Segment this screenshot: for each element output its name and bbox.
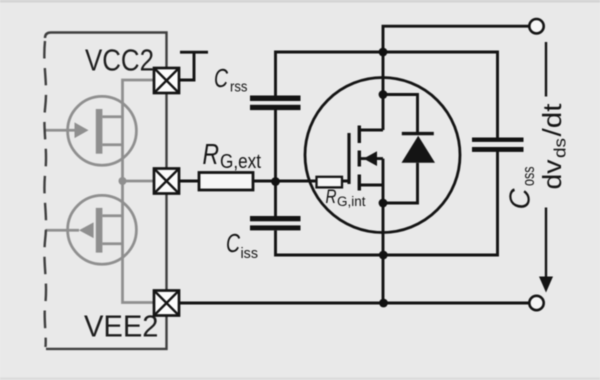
svg-text:iss: iss bbox=[241, 245, 259, 262]
svg-text:VEE2: VEE2 bbox=[84, 308, 159, 343]
svg-text:dv: dv bbox=[537, 160, 567, 190]
svg-text:C: C bbox=[214, 63, 228, 93]
svg-text:VCC2: VCC2 bbox=[85, 43, 154, 78]
svg-text:R: R bbox=[326, 186, 337, 208]
svg-text:G,int: G,int bbox=[337, 194, 366, 209]
svg-text:C: C bbox=[226, 228, 240, 258]
svg-text:/dt: /dt bbox=[537, 103, 567, 137]
svg-text:rss: rss bbox=[230, 79, 248, 96]
svg-text:G,ext: G,ext bbox=[220, 151, 261, 173]
svg-text:oss: oss bbox=[519, 167, 538, 187]
svg-text:R: R bbox=[203, 139, 220, 171]
svg-text:ds: ds bbox=[551, 138, 570, 158]
svg-text:C: C bbox=[505, 188, 537, 210]
